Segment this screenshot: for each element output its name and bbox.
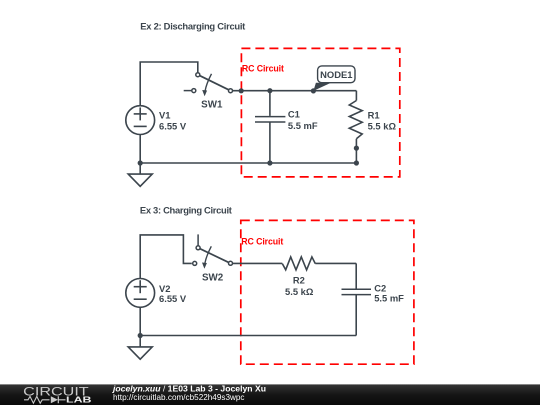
wire R2 to C2 top: [315, 262, 356, 264]
wire C2 top lead: [355, 263, 357, 288]
svg-text:C1: C1: [288, 109, 300, 120]
svg-text:NODE1: NODE1: [320, 69, 352, 80]
junction NODE1 attach: [311, 88, 316, 93]
wire SW1 to R1 top: [233, 90, 357, 92]
wire C1 bottom lead: [269, 122, 271, 163]
svg-text:SW1: SW1: [201, 100, 223, 111]
junction R1 bottom terminal: [354, 146, 359, 151]
wire ground lead (Ex 3): [139, 336, 141, 347]
svg-text:5.5 kΩ: 5.5 kΩ: [285, 286, 314, 297]
node NODE1 flag: [313, 66, 355, 91]
svg-text:5.5 mF: 5.5 mF: [374, 293, 404, 304]
wire SW2 to R2: [233, 262, 283, 264]
svg-text:LAB: LAB: [66, 395, 92, 405]
svg-text:5.5 mF: 5.5 mF: [288, 120, 318, 131]
resistor R2: [282, 257, 315, 270]
wire ground lead (Ex 2): [139, 163, 141, 174]
red dashed box RC Circuit (Ex 2): [241, 48, 399, 177]
svg-text:R2: R2: [293, 274, 305, 285]
ground (Ex 2): [128, 174, 152, 186]
svg-text:jocelyn.xuu / 1E03 Lab 3 - Joc: jocelyn.xuu / 1E03 Lab 3 - Jocelyn Xu: [112, 384, 266, 393]
svg-text:Ex 2: Discharging Circuit: Ex 2: Discharging Circuit: [140, 21, 245, 32]
wire V2 top to SW2: [140, 235, 192, 279]
wire bottom rail (Ex 3): [140, 335, 356, 337]
wire C1 top lead: [269, 91, 271, 116]
svg-text:Ex 3: Charging Circuit: Ex 3: Charging Circuit: [140, 204, 232, 215]
wire V1 bottom lead: [139, 135, 141, 164]
resistor R1: [349, 101, 362, 139]
wire R1 top lead: [355, 91, 357, 101]
wire V2 bottom lead: [139, 307, 141, 335]
capacitor C2: [342, 289, 372, 294]
svg-text:V1: V1: [159, 109, 170, 120]
switch SW1: [184, 73, 233, 97]
junction R1 bottom: [354, 160, 359, 165]
wire V1 top to SW1: [140, 62, 198, 106]
voltage source V2: [126, 279, 155, 308]
junction C1 top: [267, 88, 272, 93]
svg-text:SW2: SW2: [202, 273, 224, 284]
ground (Ex 3): [128, 347, 152, 359]
capacitor C1: [255, 117, 285, 122]
logo resistor-diode glyph: [24, 396, 50, 403]
footer bar: [0, 384, 540, 405]
junction C1 bottom: [267, 160, 272, 165]
svg-text:6.55 V: 6.55 V: [159, 120, 187, 131]
svg-text:6.55 V: 6.55 V: [159, 293, 187, 304]
wire R1 bottom lead: [355, 139, 357, 163]
switch SW2: [193, 234, 233, 268]
junction V1 bottom: [138, 160, 143, 165]
svg-text:RC Circuit: RC Circuit: [241, 236, 283, 246]
svg-text:5.5 kΩ: 5.5 kΩ: [368, 121, 397, 132]
svg-text:R1: R1: [368, 110, 380, 121]
voltage source V1: [126, 106, 155, 135]
svg-text:http://circuitlab.com/cb522h49: http://circuitlab.com/cb522h49s3wpc: [113, 393, 245, 402]
red dashed box RC Circuit (Ex 3): [241, 220, 414, 364]
wire bottom rail (Ex 2): [140, 162, 356, 164]
svg-text:RC Circuit: RC Circuit: [242, 64, 284, 74]
junction V2 bottom: [138, 333, 143, 338]
wire C2 bottom lead: [355, 295, 357, 336]
junction at x=241: [239, 88, 244, 93]
